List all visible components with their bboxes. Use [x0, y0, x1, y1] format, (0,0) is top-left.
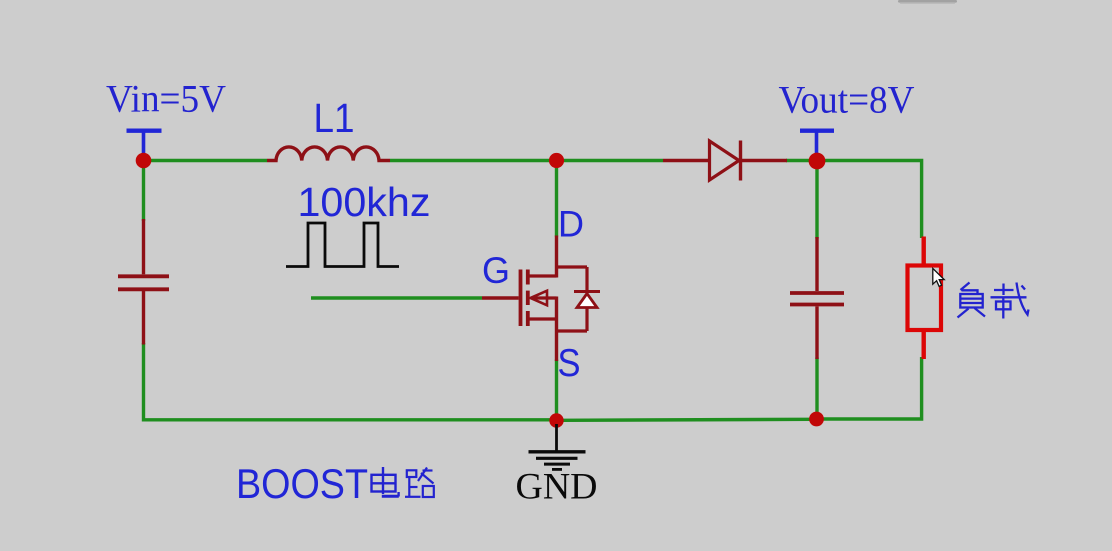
diode D1 — [663, 141, 787, 181]
MOSFET Q1 (N-channel with body diode) — [482, 236, 600, 362]
wire: drain node to diode anode — [562, 159, 663, 162]
wire: C2 bottom to bottom rail — [815, 358, 818, 415]
svg-text:Vin=5V: Vin=5V — [106, 78, 226, 121]
junction node at Vin — [136, 153, 152, 169]
body stub with arrow — [532, 296, 557, 299]
wire: Vin node to inductor (top-left horizontal) — [148, 159, 267, 162]
wire: C1 bottom down and along bottom rail to source node — [144, 343, 552, 420]
drain vertical — [555, 236, 558, 278]
channel segments — [526, 270, 530, 285]
wire: drain node down to MOSFET drain pin — [555, 165, 558, 237]
inductor L1 — [267, 147, 390, 161]
link to body diode bottom — [555, 329, 587, 332]
label 路 (lu) — [405, 468, 434, 498]
wire: Vout node down to C2 — [815, 165, 818, 239]
ground — [529, 424, 586, 469]
load resistor RL (bright red) — [908, 237, 942, 360]
wire: MOSFET source pin down to source node — [555, 360, 558, 417]
capacitor C1 (input cap) — [118, 219, 169, 345]
svg-text:100khz: 100khz — [298, 179, 431, 225]
source stub — [530, 317, 557, 320]
junction node at drain/top — [549, 153, 564, 168]
square wave symbol — [286, 223, 399, 267]
junction node at Vout — [809, 153, 826, 170]
svg-text:Vout=8V: Vout=8V — [779, 79, 915, 122]
mouse cursor — [933, 268, 944, 286]
wire: gate drive line — [311, 296, 482, 299]
wire: Vin node down to C1 — [142, 165, 145, 221]
Vin terminal (blue) — [127, 131, 162, 156]
wire: Vout node to top-right corner and down to load — [786, 161, 922, 239]
svg-text:G: G — [482, 250, 510, 291]
junction node at C2 bottom — [809, 412, 824, 427]
wire: bottom rail to bottom-right corner and up to load — [822, 357, 922, 419]
svg-text:S: S — [558, 342, 581, 385]
capacitor C2 (output cap) — [790, 237, 844, 359]
label 负 (fu) — [958, 283, 986, 318]
svg-text:BOOST: BOOST — [236, 460, 368, 507]
source vertical — [555, 297, 558, 362]
svg-text:GND: GND — [516, 467, 598, 508]
Vout terminal (blue) — [800, 131, 834, 156]
gate bar — [519, 270, 523, 327]
gate lead — [482, 296, 519, 299]
drain stub — [530, 274, 557, 277]
wire: inductor to drain node (top horizontal) — [390, 159, 551, 162]
top edge smudge (cut-off UI element) — [898, 0, 957, 4]
label 电 (dian) — [372, 467, 399, 497]
link to body diode top — [555, 265, 587, 268]
svg-text:L1: L1 — [314, 95, 355, 141]
wire: source node to output cap node (bottom rail) — [562, 419, 811, 420]
body diode — [585, 267, 588, 292]
junction node at source/bottom — [549, 413, 563, 427]
label 载 (zai) — [991, 283, 1029, 319]
svg-text:D: D — [558, 204, 584, 245]
